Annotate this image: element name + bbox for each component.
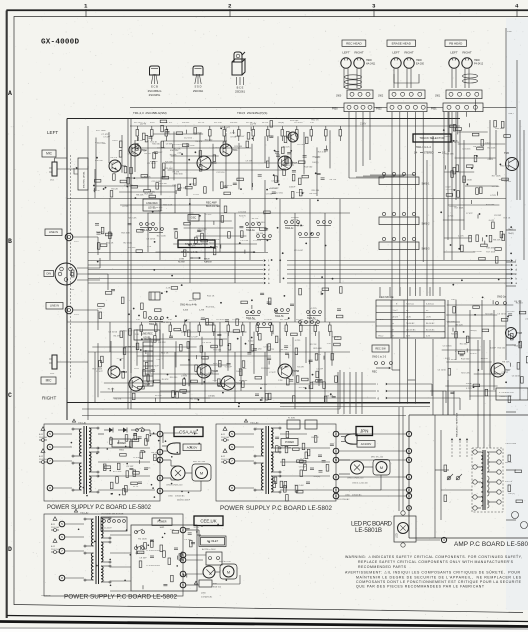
svg-text:SW1-4b to 4-4b: SW1-4b to 4-4b <box>180 304 197 307</box>
capacitor <box>186 574 188 578</box>
resistor <box>501 121 504 128</box>
svg-text:P901: P901 <box>431 108 437 111</box>
capacitor <box>188 532 192 534</box>
connector J900 <box>347 90 373 99</box>
connector P901 <box>443 103 483 112</box>
transistor Q <box>288 132 298 142</box>
svg-text:C3 10/16: C3 10/16 <box>271 181 280 183</box>
transformer secondary winding <box>89 428 91 448</box>
svg-text:M: M <box>380 466 383 470</box>
resistor <box>268 393 271 400</box>
right column verticals <box>443 112 445 260</box>
psu2 terminal N <box>180 557 186 563</box>
label JPN <box>356 427 373 436</box>
svg-text:R14 560: R14 560 <box>206 306 215 308</box>
svg-text:A F1: A F1 <box>39 433 44 436</box>
resistor <box>172 391 175 398</box>
svg-text:3: 3 <box>372 3 376 10</box>
svg-text:TA4,7: TA4,7 <box>508 228 514 231</box>
svg-text:4.7/25: 4.7/25 <box>295 340 301 342</box>
TRACK SELECTOR label box <box>413 134 451 142</box>
terminal 5 <box>229 431 235 437</box>
resistor <box>299 288 302 295</box>
resistor <box>502 178 509 181</box>
svg-text:R25 68K: R25 68K <box>121 233 130 235</box>
capacitor <box>272 330 274 334</box>
diode D2 <box>118 429 123 431</box>
svg-text:D: D <box>8 546 12 553</box>
capacitor <box>309 359 313 361</box>
REC SW label box <box>372 345 389 352</box>
resistor <box>204 187 207 194</box>
ruler tick 1 <box>85 9 87 17</box>
svg-text:C3 10/16: C3 10/16 <box>253 240 262 242</box>
wire rec head feed <box>355 112 357 172</box>
svg-text:7: 7 <box>408 432 410 436</box>
svg-text:R17 100K: R17 100K <box>492 175 502 177</box>
svg-text:C3 10/16: C3 10/16 <box>157 148 166 150</box>
svg-text:J9-3: J9-3 <box>50 373 55 375</box>
resistor <box>246 141 249 148</box>
resistor <box>274 477 277 484</box>
svg-text:2SK30A: 2SK30A <box>193 89 203 93</box>
svg-text:C900 0.1+20/+100: C900 0.1+20/+100 <box>352 483 368 485</box>
wire erase head feed <box>399 112 401 199</box>
capacitor <box>244 250 246 254</box>
svg-text:R8 22K: R8 22K <box>125 346 132 348</box>
resistor <box>132 439 139 442</box>
svg-text:POWER: POWER <box>157 521 166 524</box>
scan speckle noise <box>175 101 178 104</box>
svg-text:C7 47P: C7 47P <box>316 369 323 371</box>
channel divider verticals <box>127 119 129 410</box>
bus wire f left <box>88 260 263 262</box>
capacitor <box>95 223 99 225</box>
resistor <box>255 376 262 379</box>
svg-text:10K(B): 10K(B) <box>208 396 215 398</box>
bottom trim line <box>0 628 528 629</box>
svg-text:PB HEAD: PB HEAD <box>449 41 463 45</box>
terminal 8 <box>47 485 53 491</box>
bus wire b right <box>287 278 510 280</box>
capacitor <box>181 551 183 555</box>
switch contacts <box>317 221 320 224</box>
right channel rail4 <box>82 408 340 410</box>
wire erase head feed <box>422 112 424 199</box>
REC MODE table <box>375 291 447 339</box>
svg-text:C7 47P: C7 47P <box>101 134 109 136</box>
svg-text:R25 68K: R25 68K <box>164 168 173 170</box>
psu3 terminal 2 <box>333 431 339 437</box>
svg-text:C9 33P: C9 33P <box>200 319 207 321</box>
svg-text:h: h <box>378 389 380 393</box>
resistor <box>195 237 198 244</box>
outer border bottom <box>7 616 528 622</box>
AC plug JPN <box>345 434 357 444</box>
svg-text:R30 330: R30 330 <box>136 140 144 142</box>
capacitor <box>267 301 271 303</box>
resistor <box>162 171 165 178</box>
svg-text:6: 6 <box>49 445 51 449</box>
resistor <box>297 460 304 463</box>
resistor <box>453 167 456 174</box>
resistor <box>519 311 526 314</box>
resistor <box>138 386 145 389</box>
psu2 terminal 2 <box>180 527 186 533</box>
psu junctions <box>86 495 88 497</box>
svg-text:TR1-2: TR1-2 <box>378 336 383 338</box>
svg-text:AC220 to 240V: AC220 to 240V <box>202 548 216 551</box>
resistor <box>270 121 273 128</box>
resistor <box>125 485 128 492</box>
resistor <box>474 155 477 162</box>
resistor <box>211 345 218 348</box>
MIC REC LEVEL control VR1 <box>78 158 88 190</box>
resistor <box>517 363 520 370</box>
capacitor <box>196 355 198 359</box>
capacitor <box>182 391 186 393</box>
capacitor <box>509 363 511 367</box>
svg-text:E C B: E C B <box>151 85 158 89</box>
resistor <box>456 165 459 172</box>
svg-text:M90 MC-100: M90 MC-100 <box>219 561 231 563</box>
svg-text:C15 0.047: C15 0.047 <box>294 122 303 124</box>
capacitor <box>261 397 263 401</box>
capacitor <box>317 379 321 381</box>
resistor <box>485 389 488 396</box>
resistor <box>206 319 209 326</box>
svg-text:R14 560: R14 560 <box>498 347 506 349</box>
capacitor <box>136 545 138 549</box>
svg-text:FREQUENCY RESPONSE: FREQUENCY RESPONSE <box>457 412 459 437</box>
resistor <box>154 336 157 343</box>
fuse F1 <box>53 517 57 521</box>
switch SW4-5a <box>246 311 249 314</box>
resistor <box>241 301 248 304</box>
capacitor <box>137 137 139 141</box>
svg-text:6.7 KLB: 6.7 KLB <box>499 392 507 394</box>
svg-text:R6 12K: R6 12K <box>327 396 334 398</box>
wire erase head feed <box>414 112 416 199</box>
wire pb head feed <box>466 112 468 117</box>
svg-text:R25 68K: R25 68K <box>152 319 160 321</box>
transformer primary winding <box>261 429 263 456</box>
psu1 terminal 0 <box>157 475 163 481</box>
resistor <box>101 356 104 363</box>
VR slider right ch <box>143 342 153 386</box>
capacitor <box>217 333 221 335</box>
switch contacts <box>257 323 260 326</box>
svg-text:0.2V: 0.2V <box>406 336 411 338</box>
resistor <box>194 128 197 135</box>
capacitor <box>174 227 178 229</box>
resistor <box>97 243 100 250</box>
svg-text:C7 47P: C7 47P <box>466 213 473 215</box>
resistor <box>296 376 299 383</box>
capacitor CH50 <box>171 466 185 480</box>
wire <box>219 199 221 252</box>
svg-text:C1 4700/250WV: C1 4700/250WV <box>146 550 161 552</box>
psu1 terminal 2 <box>157 431 163 437</box>
capacitor <box>169 335 173 337</box>
resistor <box>120 331 123 338</box>
wire erase to oscillator <box>407 199 409 340</box>
resistor <box>335 376 338 383</box>
resistor <box>94 180 101 183</box>
capacitor <box>272 191 276 193</box>
svg-text:A F2: A F2 <box>221 455 226 458</box>
capacitor <box>288 354 290 358</box>
svg-text:ERASE HEAD: ERASE HEAD <box>392 41 412 45</box>
wire pb head feed <box>448 112 450 152</box>
svg-text:SW1-3: SW1-3 <box>422 247 430 251</box>
svg-text:R14 560: R14 560 <box>304 166 313 168</box>
fuse F1 <box>41 427 45 431</box>
svg-text:R8 22K: R8 22K <box>158 342 166 344</box>
resistor <box>221 216 224 223</box>
wire <box>294 352 296 409</box>
sheet fold line <box>505 28 507 300</box>
svg-text:A F2: A F2 <box>51 545 56 548</box>
resistor <box>200 346 203 353</box>
svg-text:A F1: A F1 <box>221 433 226 436</box>
resistor <box>467 165 474 168</box>
svg-text:SW1-1 to 1-4: SW1-1 to 1-4 <box>416 146 431 149</box>
svg-text:C12 1/50: C12 1/50 <box>240 240 249 242</box>
psu3 motor wiring <box>339 459 350 461</box>
resistor <box>455 331 458 338</box>
resistor <box>144 312 147 319</box>
psu2 circuit outline <box>131 525 197 591</box>
svg-text:R2 150K: R2 150K <box>463 179 472 181</box>
svg-text:82.0V AC: 82.0V AC <box>426 329 435 332</box>
svg-text:LE-5801B: LE-5801B <box>355 527 382 534</box>
resistor <box>284 486 287 493</box>
matrix lattice <box>120 204 218 206</box>
svg-text:R12 1K: R12 1K <box>332 336 339 338</box>
svg-text:C12 1/50: C12 1/50 <box>216 172 225 174</box>
led DL-56E <box>398 523 409 534</box>
shield dashed <box>70 155 72 378</box>
resistor <box>276 446 279 453</box>
resistor <box>213 155 216 162</box>
svg-text:V2-3: V2-3 <box>74 314 79 316</box>
svg-text:J901: J901 <box>435 95 441 98</box>
wire osc feeds <box>477 340 479 448</box>
svg-text:AVERTISSEMENT: ⚠IL INDIQUI LES: AVERTISSEMENT: ⚠IL INDIQUI LES COMPOSANT… <box>345 570 520 575</box>
capacitor <box>319 470 323 472</box>
capacitor <box>468 123 470 127</box>
resistor <box>495 257 498 264</box>
wire <box>219 322 221 352</box>
psu3 terminal N <box>333 457 339 463</box>
svg-text:400/200 400UF: 400/200 400UF <box>177 500 191 502</box>
svg-text:J900: J900 <box>336 95 342 98</box>
capacitor <box>255 393 259 395</box>
svg-text:R25 68K: R25 68K <box>234 146 242 148</box>
svg-text:R4 47K: R4 47K <box>291 219 298 221</box>
svg-text:C12 1/50: C12 1/50 <box>184 138 193 140</box>
psu2 terminal 0 <box>180 571 186 577</box>
wire <box>279 322 281 352</box>
svg-text:R25 68K: R25 68K <box>213 349 221 351</box>
svg-text:R6 12K: R6 12K <box>252 218 259 220</box>
svg-text:TR4: TR4 <box>233 148 238 152</box>
svg-text:7: 7 <box>49 459 51 463</box>
svg-text:C7 47P: C7 47P <box>501 372 508 374</box>
resistor <box>251 345 254 352</box>
wire pb head feed <box>474 99 476 111</box>
bus wire e left <box>88 264 263 266</box>
svg-text:8: 8 <box>231 486 233 490</box>
PB head cable loops <box>463 74 478 78</box>
resistor <box>477 147 484 150</box>
fuse F2 <box>53 539 57 543</box>
capacitor <box>175 190 177 194</box>
svg-text:7: 7 <box>231 459 233 463</box>
wire <box>174 352 176 395</box>
svg-text:R4 47K: R4 47K <box>311 437 319 439</box>
resistor <box>242 361 245 368</box>
svg-text:R17 100K: R17 100K <box>455 208 465 210</box>
wire <box>94 352 96 402</box>
psu1 terminal 9 <box>157 488 163 494</box>
resistor <box>161 141 164 148</box>
psu3 wiring <box>280 433 307 435</box>
svg-text:2.2K: 2.2K <box>168 319 173 321</box>
resistor <box>240 369 243 376</box>
svg-text:CH50 0.1H20/+100: CH50 0.1H20/+100 <box>166 485 182 487</box>
svg-text:0.022: 0.022 <box>190 184 196 186</box>
svg-text:R30 330: R30 330 <box>500 166 509 168</box>
resistor <box>259 334 262 341</box>
svg-text:1000P: 1000P <box>490 348 496 350</box>
resistor <box>224 206 227 213</box>
feed joins <box>392 369 400 371</box>
resistor <box>194 179 197 186</box>
svg-text:2.2K: 2.2K <box>210 169 215 171</box>
svg-text:R12 1K: R12 1K <box>207 296 215 298</box>
transistor TR3B <box>197 364 211 378</box>
svg-text:C3 10/16: C3 10/16 <box>146 239 156 241</box>
capacitor <box>450 391 454 393</box>
svg-text:R4 47K: R4 47K <box>162 379 169 381</box>
svg-text:R8 22K: R8 22K <box>170 155 177 157</box>
capacitor <box>330 443 334 445</box>
svg-text:R21 5.6K: R21 5.6K <box>128 217 137 219</box>
svg-text:C9 33P: C9 33P <box>494 215 502 217</box>
wire erase head feed <box>407 112 409 199</box>
switch SW1 contacts <box>136 429 139 432</box>
resistor <box>110 438 113 445</box>
svg-text:35.4V: 35.4V <box>140 123 147 126</box>
AC INLET box <box>199 536 226 547</box>
amp lattice wires left channel <box>95 138 97 191</box>
svg-text:R12 1K: R12 1K <box>516 303 524 305</box>
svg-text:6: 6 <box>231 445 233 449</box>
svg-text:R4 47K: R4 47K <box>470 353 477 355</box>
capacitor <box>303 155 307 157</box>
resistor <box>292 396 295 403</box>
wire rec head feed <box>369 112 371 160</box>
resistor <box>451 171 454 178</box>
svg-text:4.7/25: 4.7/25 <box>193 194 199 196</box>
svg-text:A to B: A to B <box>393 316 399 319</box>
svg-text:LINE IN: LINE IN <box>49 230 58 234</box>
psu3 terminal 9 <box>333 487 339 493</box>
resistor <box>494 121 497 128</box>
resistor <box>283 169 286 176</box>
svg-text:R12 1K: R12 1K <box>154 457 162 459</box>
resistor <box>264 211 271 214</box>
resistor <box>302 175 309 178</box>
svg-text:0.022: 0.022 <box>134 368 140 370</box>
resistor <box>125 435 128 442</box>
resistor <box>266 161 269 168</box>
terminal 3b <box>441 537 446 542</box>
resistor <box>526 356 528 363</box>
capacitor <box>322 460 326 462</box>
svg-text:CSA,AAL: CSA,AAL <box>179 429 198 434</box>
resistor <box>176 132 183 135</box>
svg-text:8: 8 <box>49 486 51 490</box>
wire line-in right <box>73 309 98 311</box>
svg-text:2.2K: 2.2K <box>172 184 177 186</box>
AC plug CSA <box>167 443 180 454</box>
AC inlet component <box>206 552 222 565</box>
svg-text:J902: J902 <box>378 95 384 98</box>
svg-text:4.7/25: 4.7/25 <box>448 216 454 218</box>
resistor <box>130 167 133 174</box>
switch SW4-5b <box>275 309 278 312</box>
ruler tick 3 <box>373 9 375 17</box>
svg-text:C12 1/50: C12 1/50 <box>270 187 279 189</box>
resistor <box>480 187 483 194</box>
capacitor <box>477 215 479 219</box>
svg-text:R21 5.6K: R21 5.6K <box>295 485 305 487</box>
svg-text:5: 5 <box>231 432 233 436</box>
svg-text:C7 47P: C7 47P <box>166 122 173 124</box>
resistor <box>134 433 137 440</box>
capacitor <box>268 157 270 161</box>
svg-text:C2 4700/250WV: C2 4700/250WV <box>146 565 161 567</box>
amp lattice wires right channel <box>97 343 99 397</box>
psu3 terminal 8 <box>333 493 339 499</box>
capacitor <box>260 292 264 294</box>
resistor <box>482 329 489 332</box>
label CEE,UK <box>194 516 223 526</box>
wire <box>189 322 191 409</box>
resistor <box>299 178 302 185</box>
capacitor <box>269 135 273 137</box>
resistor <box>171 287 178 290</box>
resistor <box>151 541 154 548</box>
resistor <box>143 370 146 377</box>
led board wires <box>398 407 400 511</box>
svg-text:POWER SUPPLY P.C BOARD LE-5802: POWER SUPPLY P.C BOARD LE-5802 <box>64 594 177 601</box>
svg-text:R14 560: R14 560 <box>514 345 522 347</box>
right strip wire stubs <box>506 106 516 108</box>
resistor <box>110 191 113 198</box>
capacitor <box>452 328 454 332</box>
svg-text:0.022: 0.022 <box>209 373 215 375</box>
transistor TR2B <box>129 377 143 391</box>
wire feeds down <box>379 287 381 296</box>
wire <box>294 213 296 322</box>
svg-text:2.2K: 2.2K <box>156 359 161 361</box>
frequency response arrows <box>451 440 453 457</box>
resistor <box>331 354 334 361</box>
